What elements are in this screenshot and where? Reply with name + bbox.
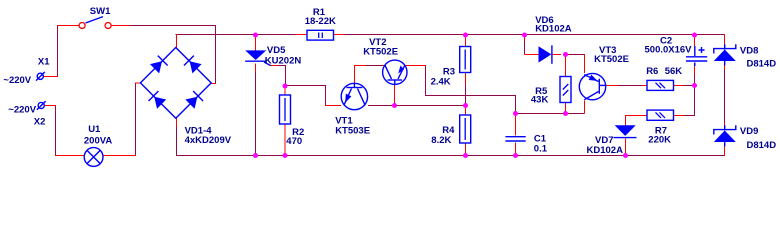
svg-text:470: 470 [286, 136, 302, 147]
svg-text:D814D: D814D [747, 140, 777, 151]
svg-text:8.2K: 8.2K [431, 135, 451, 146]
svg-text:43K: 43K [531, 95, 549, 106]
svg-text:KU202N: KU202N [265, 56, 302, 67]
svg-text:~220V: ~220V [3, 75, 31, 86]
svg-text:KT503E: KT503E [335, 125, 370, 136]
svg-text:200VA: 200VA [84, 136, 112, 147]
svg-text:500.0X16V: 500.0X16V [645, 45, 693, 56]
svg-text:R6: R6 [646, 66, 658, 77]
svg-text:VD9: VD9 [740, 126, 758, 137]
svg-text:4xKD209V: 4xKD209V [185, 135, 232, 146]
svg-text:U1: U1 [88, 124, 101, 135]
svg-text:VD8: VD8 [740, 45, 758, 56]
svg-text:X2: X2 [34, 117, 46, 128]
svg-text:56K: 56K [665, 66, 683, 77]
svg-text:220K: 220K [648, 135, 671, 146]
svg-text:X1: X1 [38, 57, 50, 68]
svg-text:KD102A: KD102A [587, 145, 624, 156]
svg-text:~220V: ~220V [8, 105, 36, 116]
svg-text:KT502E: KT502E [594, 54, 629, 65]
svg-text:2.4K: 2.4K [431, 77, 451, 88]
svg-text:VD5: VD5 [267, 45, 286, 56]
svg-text:KT502E: KT502E [363, 47, 398, 58]
svg-text:0.1: 0.1 [534, 144, 548, 155]
svg-text:SW1: SW1 [90, 6, 111, 17]
svg-text:18-22K: 18-22K [305, 16, 336, 27]
svg-text:D814D: D814D [747, 59, 777, 70]
svg-text:KD102A: KD102A [535, 24, 572, 35]
